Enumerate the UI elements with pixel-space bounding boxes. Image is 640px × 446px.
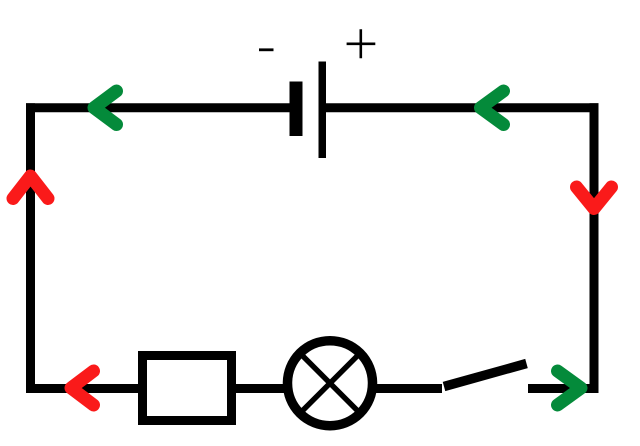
lamp L1 cross [302, 355, 359, 412]
resistor R1 [143, 356, 232, 421]
current arrow red up (left side) [13, 176, 48, 199]
wire bottom (resistor to lamp) [235, 384, 284, 393]
label minus [259, 48, 274, 51]
wire left vertical [26, 103, 35, 393]
battery B1 positive plate [319, 62, 327, 159]
current arrow green right (bottom-right) [558, 371, 582, 405]
wire right vertical [590, 103, 599, 393]
label plus [347, 29, 376, 58]
wire bottom (lamp to switch) [376, 384, 442, 393]
switch S1 blade [444, 364, 527, 387]
current arrow green left (top-right) [481, 91, 504, 125]
current arrow red down (right side) [577, 187, 612, 209]
current arrow green left (top-left) [94, 91, 117, 125]
battery B1 negative plate [290, 82, 303, 137]
lamp L1 circle [288, 341, 373, 426]
wire bottom (left segment to resistor) [26, 384, 139, 393]
wire top (left segment to battery) [26, 103, 290, 112]
wire top (battery to right) [326, 103, 599, 112]
current arrow red left (bottom-left) [71, 371, 94, 405]
wire bottom (switch to right corner) [528, 384, 599, 393]
